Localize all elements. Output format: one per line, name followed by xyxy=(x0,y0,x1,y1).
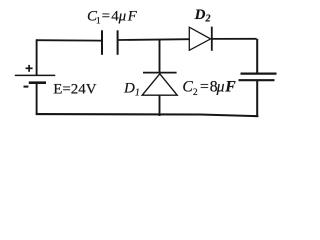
svg-text:E=24V: E=24V xyxy=(53,81,97,97)
svg-text:D2: D2 xyxy=(194,7,211,25)
svg-text:C1=4μF: C1=4μF xyxy=(87,8,138,26)
svg-text:C2=8μF: C2=8μF xyxy=(182,79,236,98)
svg-text:D1: D1 xyxy=(123,81,140,99)
